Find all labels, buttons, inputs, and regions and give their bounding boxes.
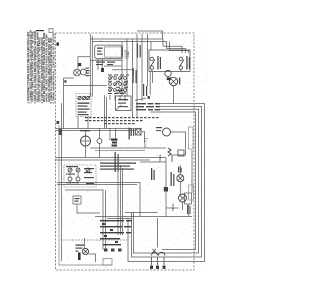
oven light label <box>151 168 155 180</box>
splice S3 <box>164 187 168 192</box>
switch S1 <box>150 57 155 69</box>
border tick <box>57 121 60 124</box>
wire bus L3 <box>95 213 192 219</box>
wire lamp1 <box>179 165 181 195</box>
second label column <box>137 44 141 58</box>
node A <box>97 139 102 144</box>
clock label <box>123 49 130 58</box>
junction box <box>103 259 112 266</box>
wire motor stubs <box>78 117 100 158</box>
svg-text:6. WIRING SHOWN WITH ALL SWITC: 6. WIRING SHOWN WITH ALL SWITCHES IN OFF… <box>52 33 55 103</box>
wire lower buses <box>57 165 140 250</box>
wire selector feed <box>104 66 134 101</box>
bake label <box>158 154 162 162</box>
transistor Q1 <box>150 249 166 269</box>
relay K1 box <box>116 96 132 111</box>
switch S2 label <box>186 56 190 70</box>
switch box SW <box>149 50 190 72</box>
switch S1 label <box>157 56 161 70</box>
wire from P1 <box>77 204 100 213</box>
gas valve V1 <box>74 63 90 76</box>
wire from X2 <box>90 132 166 148</box>
notes heading <box>36 29 53 33</box>
wire to Q1 <box>157 218 159 248</box>
notes text block (rotated) <box>27 30 55 103</box>
wire power bus nest <box>128 104 205 262</box>
pilot node P <box>165 70 171 80</box>
labels right of cluster <box>100 163 136 170</box>
svg-text:BAKE: BAKE <box>158 154 162 162</box>
connector CN1 <box>111 139 118 147</box>
bus labels <box>136 103 160 110</box>
wire from valve <box>64 78 108 129</box>
terminal dashes TB1 <box>85 117 159 124</box>
lamp L3 <box>169 77 180 85</box>
wire harness verticals <box>122 34 148 118</box>
switch labels vertical <box>133 68 148 96</box>
lamp2 label <box>171 203 175 211</box>
vertical labels mid <box>115 152 119 172</box>
label column <box>129 128 130 140</box>
wire lamp2 <box>140 150 192 217</box>
wire bus L2 <box>56 103 167 261</box>
right margin labels <box>187 127 194 214</box>
wire lamp cluster stubs <box>85 238 96 262</box>
svg-text:BROIL: BROIL <box>171 203 175 211</box>
switch S2 <box>179 57 184 69</box>
border tick2 <box>101 68 104 72</box>
P1 box <box>73 196 81 204</box>
wire drops <box>95 95 145 151</box>
wire hook <box>171 132 186 162</box>
selector switch contacts <box>109 76 128 92</box>
spark module U1 <box>156 127 171 136</box>
thermostat TH1 <box>76 94 91 117</box>
burner switch cluster SW2 <box>64 165 96 187</box>
lamp L1 <box>177 167 184 182</box>
clock timer box <box>95 45 123 59</box>
terminal strip cluster <box>100 220 132 252</box>
lamp cluster L4 <box>76 245 89 261</box>
wire diag <box>135 96 150 100</box>
selector tiny labels <box>108 75 129 95</box>
wire below box <box>150 69 181 103</box>
lamp L2 <box>179 193 192 204</box>
dashed wire bottom <box>63 239 127 241</box>
clock sub labels <box>96 62 115 66</box>
label B on frame <box>57 43 59 46</box>
wire bus L1 <box>78 31 189 97</box>
indicator X2 <box>131 128 142 136</box>
igniter IG1 <box>168 148 184 156</box>
lamp L1 side label <box>171 172 175 186</box>
border connector <box>59 129 63 135</box>
motor M1 <box>80 130 91 146</box>
relay top labels <box>116 90 126 94</box>
